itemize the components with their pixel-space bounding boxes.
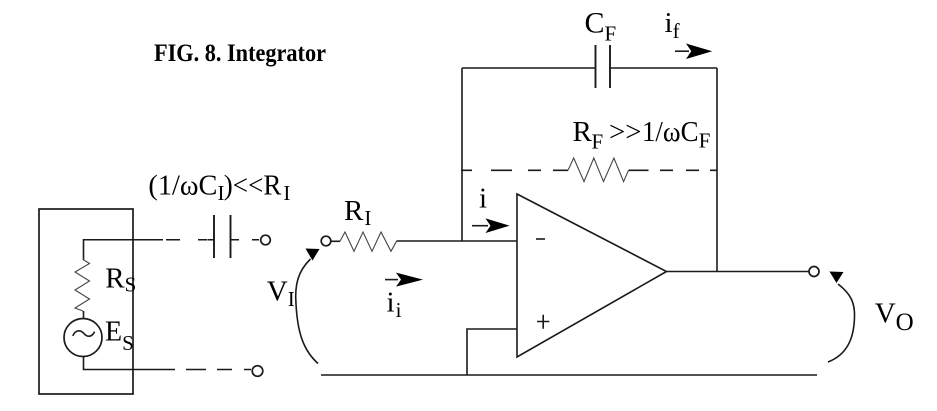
svg-text:R: R bbox=[573, 116, 593, 148]
wire bbox=[83, 311, 85, 319]
source box bbox=[39, 209, 133, 394]
voltage arrow VO bbox=[828, 284, 855, 362]
terminal (bottom left) bbox=[252, 366, 263, 377]
svg-text:if: if bbox=[665, 7, 680, 43]
svg-text:FIG. 8. Integrator: FIG. 8. Integrator bbox=[154, 40, 326, 67]
voltage arrow VI bbox=[296, 259, 318, 364]
wire (feedback left vertical) bbox=[461, 68, 463, 241]
wire bbox=[84, 240, 164, 260]
svg-text:F: F bbox=[592, 130, 604, 154]
svg-text:1/ωC: 1/ωC bbox=[642, 116, 699, 148]
resistor RI bbox=[331, 240, 340, 242]
wire (plus input) bbox=[467, 329, 517, 375]
svg-text:VI: VI bbox=[267, 275, 295, 311]
resistor RS bbox=[75, 260, 90, 312]
resistor RF (dashed branch) bbox=[461, 169, 568, 171]
wire (dashed) bbox=[166, 239, 207, 241]
terminal (output) bbox=[809, 267, 819, 277]
svg-text:RI: RI bbox=[344, 195, 371, 230]
op-amp bbox=[517, 194, 667, 357]
svg-text:(1/ωC: (1/ωC bbox=[148, 170, 217, 202]
svg-text:RS: RS bbox=[105, 263, 136, 297]
capacitor CI bbox=[214, 215, 231, 258]
capacitor CF bbox=[596, 45, 611, 88]
wire (dashed) bbox=[186, 369, 251, 371]
svg-text:I: I bbox=[283, 181, 290, 205]
wire (feedback top) bbox=[462, 67, 717, 69]
svg-text:CF: CF bbox=[585, 6, 617, 45]
wire (bottom rail) bbox=[321, 374, 817, 376]
svg-text:ii: ii bbox=[387, 287, 402, 322]
terminal (input) bbox=[321, 236, 331, 246]
svg-text:VO: VO bbox=[875, 298, 914, 336]
arrow if bbox=[675, 50, 689, 52]
terminal (after CI) bbox=[261, 235, 271, 245]
svg-text:)<<R: )<<R bbox=[224, 170, 282, 202]
wire (output) bbox=[667, 271, 810, 273]
svg-text:F: F bbox=[699, 129, 711, 153]
svg-text:i: i bbox=[479, 183, 487, 215]
source ES bbox=[64, 319, 102, 357]
arrow i bbox=[472, 225, 488, 227]
arrow ii bbox=[385, 279, 398, 281]
svg-text:ES: ES bbox=[105, 317, 134, 356]
svg-text:>>: >> bbox=[609, 116, 642, 148]
wire (feedback right vertical) bbox=[716, 68, 718, 272]
wire (minus input) bbox=[397, 240, 518, 242]
wire bbox=[84, 357, 176, 370]
